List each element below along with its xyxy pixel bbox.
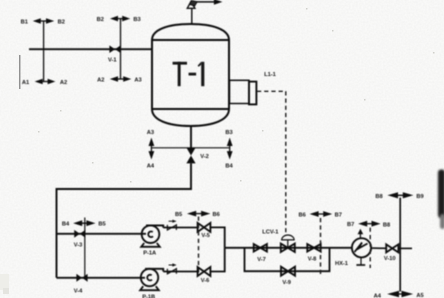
svg-text:B5: B5: [98, 222, 105, 228]
pump P-1B: [140, 269, 163, 298]
svg-text:V-3: V-3: [74, 243, 83, 249]
wire: bypass loop around LCV-1: [245, 248, 330, 271]
wire: P-1B suction branch: [57, 277, 146, 279]
check valve after P-1B: [167, 263, 176, 273]
node A1-A2 stream connector arrows: [22, 79, 67, 86]
wire: pipe from V-2 down, left and down to suction header: [57, 163, 192, 277]
wire: HX-1 outlet line to V-10: [371, 247, 386, 249]
wire: P-1A suction branch: [57, 233, 147, 235]
svg-text:A4: A4: [147, 163, 155, 169]
svg-text:B4: B4: [62, 222, 70, 228]
wire: dashed boundary line beside HX-1: [369, 228, 371, 268]
wire: P-1A discharge line: [163, 227, 197, 229]
svg-text:A3: A3: [134, 78, 141, 84]
nozzle with flange on tank right side: [230, 80, 257, 104]
wire: common discharge header to HX-1: [225, 247, 352, 249]
svg-text:V-9: V-9: [282, 280, 291, 286]
check valve after P-1A: [167, 220, 176, 230]
svg-text:B6: B6: [213, 212, 220, 218]
label HX-1: [335, 261, 348, 267]
wire: P-1B discharge line: [163, 271, 197, 273]
valve V-9: [281, 267, 295, 286]
node B6-B7 stream connector arrows: [299, 211, 342, 218]
wire: vertical boundary line at connector A4/B8: [399, 198, 401, 292]
vent arrow assembly on tank top: [187, 0, 222, 24]
valve V-8: [307, 244, 320, 263]
svg-text:V-1: V-1: [108, 58, 117, 64]
node B2-B3 stream connector arrows: [97, 16, 141, 23]
svg-text:B9: B9: [416, 194, 423, 200]
svg-text:V-5: V-5: [201, 233, 210, 239]
svg-text:B2: B2: [58, 19, 65, 25]
svg-text:A3: A3: [147, 130, 154, 136]
wire: upper discharge elbow to header: [210, 227, 224, 247]
svg-text:P-1A: P-1A: [143, 250, 156, 256]
svg-text:A2: A2: [97, 78, 104, 84]
wire: lower discharge elbow to header: [210, 248, 224, 272]
node B1-B2 stream connector arrows: [21, 18, 65, 25]
label L1-1: [264, 72, 276, 78]
wire: boundary cross line at tank bottom connectors: [151, 147, 229, 149]
svg-text:B5: B5: [175, 212, 182, 218]
svg-text:A1: A1: [22, 80, 29, 86]
svg-text:L1-1: L1-1: [264, 72, 276, 78]
svg-text:B7: B7: [335, 212, 342, 218]
valve V-1: [108, 45, 121, 63]
svg-text:V-7: V-7: [257, 257, 266, 263]
svg-text:V-10: V-10: [384, 256, 396, 262]
node B7-B8 stream connector arrows: [347, 221, 390, 229]
svg-text:HX-1: HX-1: [335, 261, 348, 267]
wire: vertical boundary line at connector A1/B1: [43, 21, 45, 82]
tank T-1 vessel: [152, 24, 229, 126]
wire: dashed boundary line through V-8: [320, 218, 322, 275]
valve V-6: [198, 267, 211, 284]
svg-text:B4: B4: [225, 163, 233, 169]
node A2-A3 stream connector arrows: [97, 76, 141, 83]
svg-text:P-1B: P-1B: [142, 295, 155, 298]
wire: dashed boundary line through V-5/V-6: [198, 217, 200, 276]
svg-text:A5: A5: [416, 293, 423, 298]
node B4-B5 stream connector arrows: [62, 220, 106, 227]
svg-text:B7: B7: [347, 222, 354, 228]
wire: tank bottom outlet pipe: [190, 126, 192, 148]
svg-text:V-4: V-4: [74, 289, 83, 295]
svg-text:LCV-1: LCV-1: [262, 230, 278, 236]
control valve LCV-1: [262, 230, 295, 252]
wire: boundary tick and tie line between V-3 and V-4 outlets: [84, 218, 86, 278]
wire: vertical boundary line at connector A2/B2: [120, 19, 122, 79]
wire: main feed line into tank: [29, 48, 152, 50]
pump P-1A: [141, 225, 163, 256]
valve V-10: [384, 244, 399, 262]
node B3-B4 stream connector arrows (vertical): [225, 130, 233, 169]
valve V-3: [74, 230, 86, 249]
label T-1 (drawn strokes): [173, 62, 205, 86]
heat exchanger HX-1: [352, 229, 371, 265]
node A4-A5 stream connector arrows: [374, 291, 424, 298]
valve V-2 (vertical): [186, 148, 208, 164]
svg-text:B2: B2: [97, 17, 104, 23]
svg-text:B6: B6: [299, 212, 306, 218]
svg-text:A2: A2: [60, 80, 67, 86]
wire: dashed level signal from nozzle to LCV-1: [257, 91, 286, 233]
svg-text:B3: B3: [225, 130, 232, 136]
scan artifact: faint vertical fold line left of A1: [19, 55, 21, 89]
node B5-B6 stream connector arrows: [175, 211, 220, 218]
valve V-5: [198, 223, 211, 239]
svg-text:B1: B1: [21, 19, 28, 25]
svg-text:B3: B3: [133, 17, 140, 23]
svg-text:B8: B8: [375, 194, 382, 200]
valve V-7: [254, 244, 267, 263]
wire: product line to battery limit: [398, 247, 412, 249]
node B8-B9 stream connector arrows: [375, 192, 423, 200]
svg-text:B8: B8: [383, 222, 390, 228]
svg-text:V-8: V-8: [308, 257, 317, 263]
svg-text:V-6: V-6: [201, 278, 210, 284]
svg-text:A4: A4: [374, 293, 382, 298]
valve V-4: [74, 274, 88, 295]
node A3-A4 stream connector arrows (vertical): [147, 130, 155, 169]
svg-text:V-2: V-2: [200, 154, 209, 160]
scan artifact: dark smudge at right page edge: [438, 170, 444, 230]
